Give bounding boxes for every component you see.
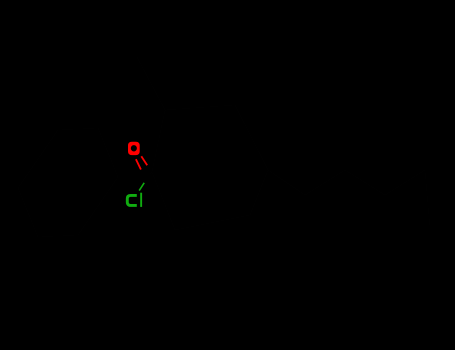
C-Cl bond (green stub) <box>139 183 144 191</box>
top chain (near-black skeleton) <box>137 57 165 110</box>
left ring (near-black skeleton) <box>18 128 118 237</box>
right chain (near-black skeleton) <box>268 170 430 228</box>
center ring (near-black skeleton) <box>152 105 268 230</box>
chlorine Cl label: l glyph <box>140 193 142 207</box>
oxygen O label <box>128 142 140 155</box>
chlorine Cl label: C glyph <box>127 195 137 205</box>
C=O double bond (red) <box>136 156 147 169</box>
bond C to ring (near-black skeleton) <box>150 172 152 174</box>
